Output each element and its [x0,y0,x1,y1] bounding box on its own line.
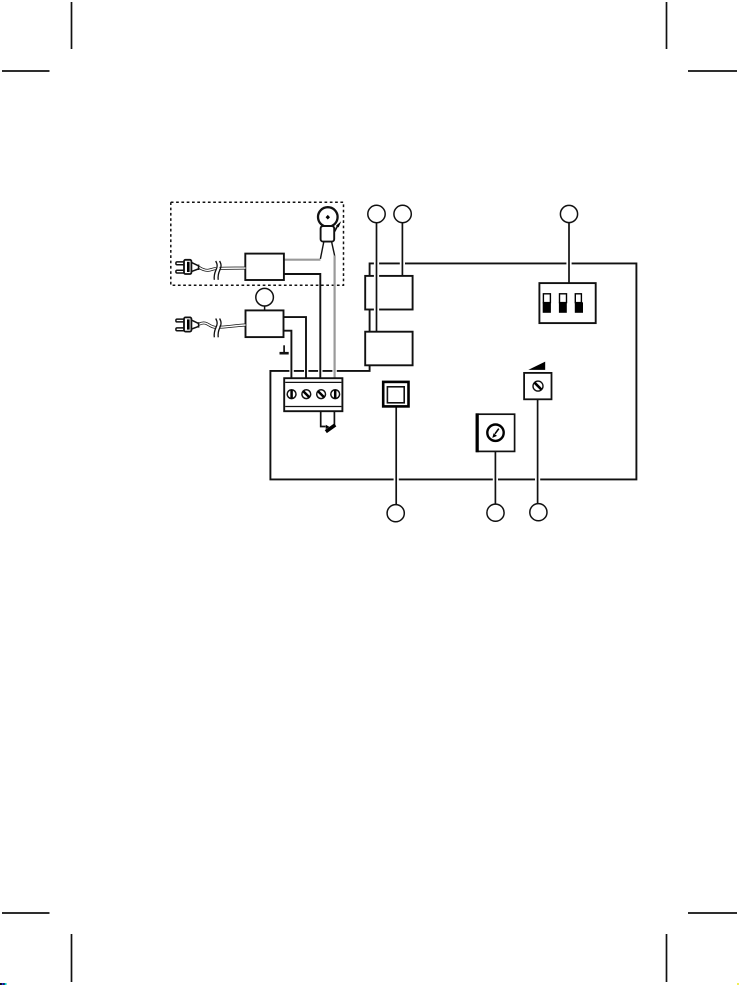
DIP switch S1 lever 3 [575,294,583,313]
mains plug P1 [176,260,199,274]
crop mark bottom-right [667,913,738,982]
relay K2 [365,332,412,366]
callout circle 1 [368,205,385,222]
power cable 1 [199,260,246,280]
terminal block X1 [284,378,342,411]
wire timer gauge to callout 6 [494,451,496,504]
gaps in enclosure edges at wire crossings [289,261,571,481]
crop mark bottom-left [2,913,72,982]
terminal screw 4 [331,390,340,399]
terminal screw 1 [287,390,296,399]
transformer T1 [245,254,284,280]
DIP switch S1 [539,283,595,323]
DIP switch S1 lever 2 [559,294,567,313]
bell body [321,226,335,242]
bell legs [320,242,334,259]
bell center diamond [326,215,330,220]
gaps in relay K1 edges at wire crossing [374,274,379,311]
mains plug P2 [176,317,199,331]
timer gauge [476,413,514,452]
wire potentiometer to callout 7 [537,399,539,503]
push button [383,382,408,407]
DIP switch S1 lever 1 [543,294,551,313]
crop mark top-right [667,2,738,71]
callout circle 6 [487,504,504,521]
terminal screw 2 [302,390,311,399]
callout circle 2 [394,205,411,222]
callout circle 4 above transformer T2 [264,306,266,310]
door contact switch below terminal block [321,411,336,431]
callout circle 3 [560,205,577,222]
printer registration yellow dot bottom-right [737,983,739,985]
transformer T2 [246,310,284,337]
bell striker [335,225,339,232]
volume ramp triangle [528,362,545,370]
control unit enclosure [270,263,636,479]
potentiometer [524,373,551,399]
crop mark top-left [2,2,72,71]
wire push button to callout 5 [395,406,397,504]
wire transformer T1 to terminal 3 [284,274,320,378]
wire bell right leg to terminal 4 (gray) [334,256,336,378]
wire transformer T1 to bell (gray) [284,259,320,261]
wire transformer T2 to terminal 2 [284,317,307,378]
terminal screw 3 [317,390,326,399]
wire transformer T2 to terminal 1 [284,331,292,378]
relay K1 [365,276,412,310]
power cable 2 [199,317,246,337]
ground symbol [280,345,289,353]
callout circle 7 [530,504,547,521]
printer registration color bar bottom-left [0,983,6,985]
bell gong circle [318,207,338,227]
dashed accessory box [171,202,344,285]
callout circle 5 [387,505,404,522]
wire callout 1 to relay K2 [376,223,378,332]
wire callout 2 to relay K1 [401,223,403,276]
wire callout 3 to DIP switch [568,223,570,284]
